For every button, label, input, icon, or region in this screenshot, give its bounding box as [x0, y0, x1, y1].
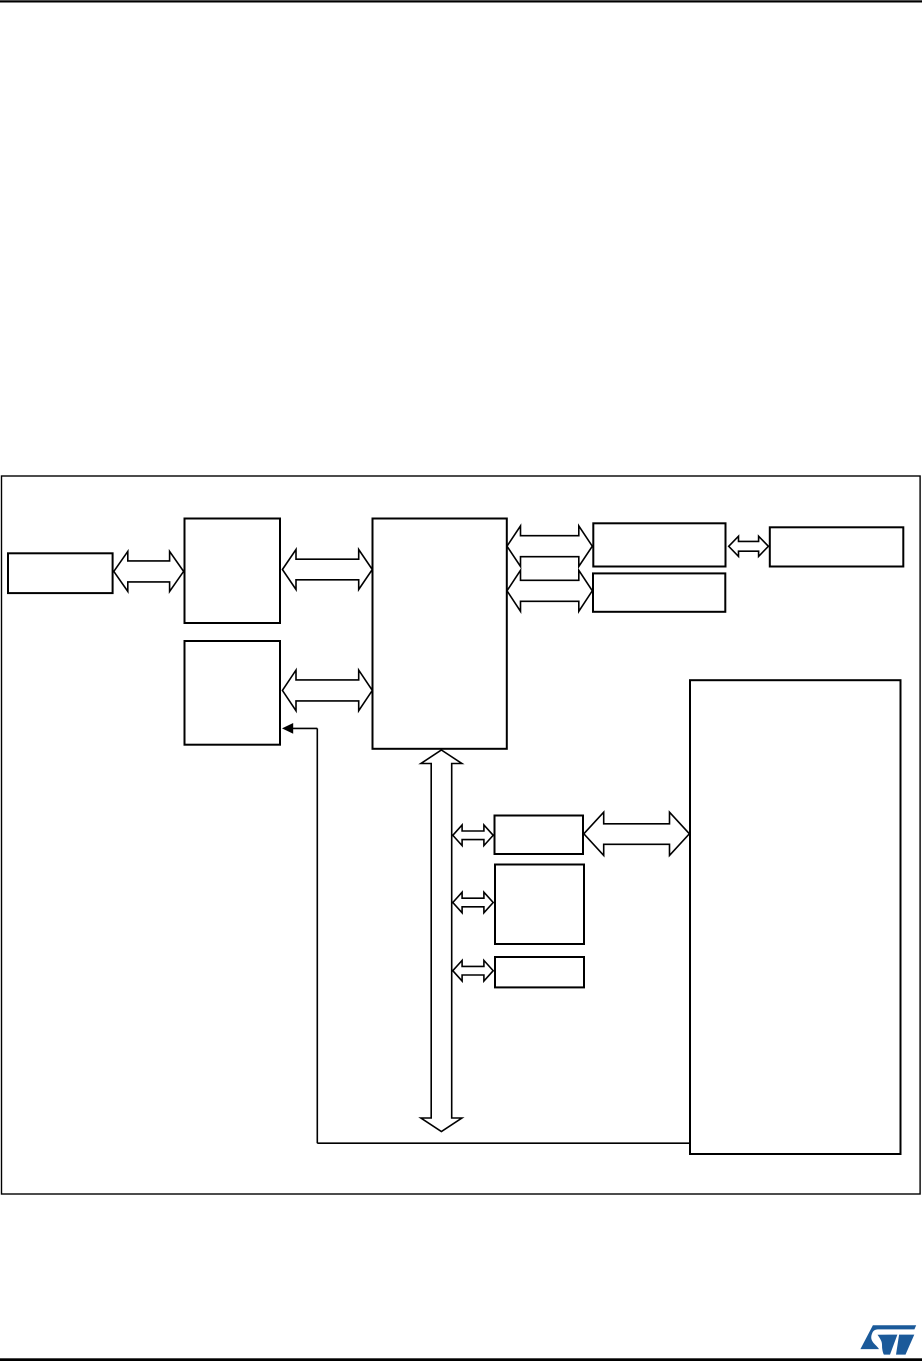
double arrow A7 (vertical bus) [421, 750, 462, 1132]
double arrow A8a (bus-B9, small) [453, 825, 493, 846]
double arrow A8b (bus-B10, small) [453, 892, 493, 913]
box B2 (upper left) [185, 519, 281, 624]
box B8 (large right) [690, 680, 901, 1154]
bottom rule [0, 1358, 922, 1361]
double arrow A9 (B9-B8) [584, 812, 690, 855]
double arrow A2 (B2-B3) [282, 550, 372, 590]
wire feedback horizontal top [291, 727, 317, 729]
box B9 (small 1) [495, 816, 584, 855]
top rule [0, 0, 922, 2]
double arrow A5 (B4-B6, small) [729, 536, 769, 556]
box B7 (mid left) [185, 641, 281, 745]
box B5 (upper right 2) [593, 573, 725, 611]
box B10 (small 2) [495, 865, 584, 945]
figure frame [2, 476, 921, 1194]
double arrow A8c (bus-B11, small) [453, 960, 493, 981]
ST logo [860, 1325, 916, 1354]
box B6 (far right) [770, 527, 904, 566]
box B11 (small 3) [495, 957, 584, 987]
box B3 (central) [373, 519, 507, 749]
arrowhead into B7 [282, 723, 293, 734]
box B1 (far left) [8, 553, 113, 593]
wire feedback vertical [316, 728, 318, 1143]
wire feedback horizontal bottom [317, 1142, 689, 1144]
box B4 (upper right 1) [593, 523, 725, 566]
double arrow A6 (B7-B3) [282, 670, 372, 711]
double arrow A4 (B3-B5) [507, 570, 592, 611]
double arrow A1 (B1-B2) [114, 551, 184, 591]
double arrow A3 (B3-B4) [507, 526, 592, 567]
